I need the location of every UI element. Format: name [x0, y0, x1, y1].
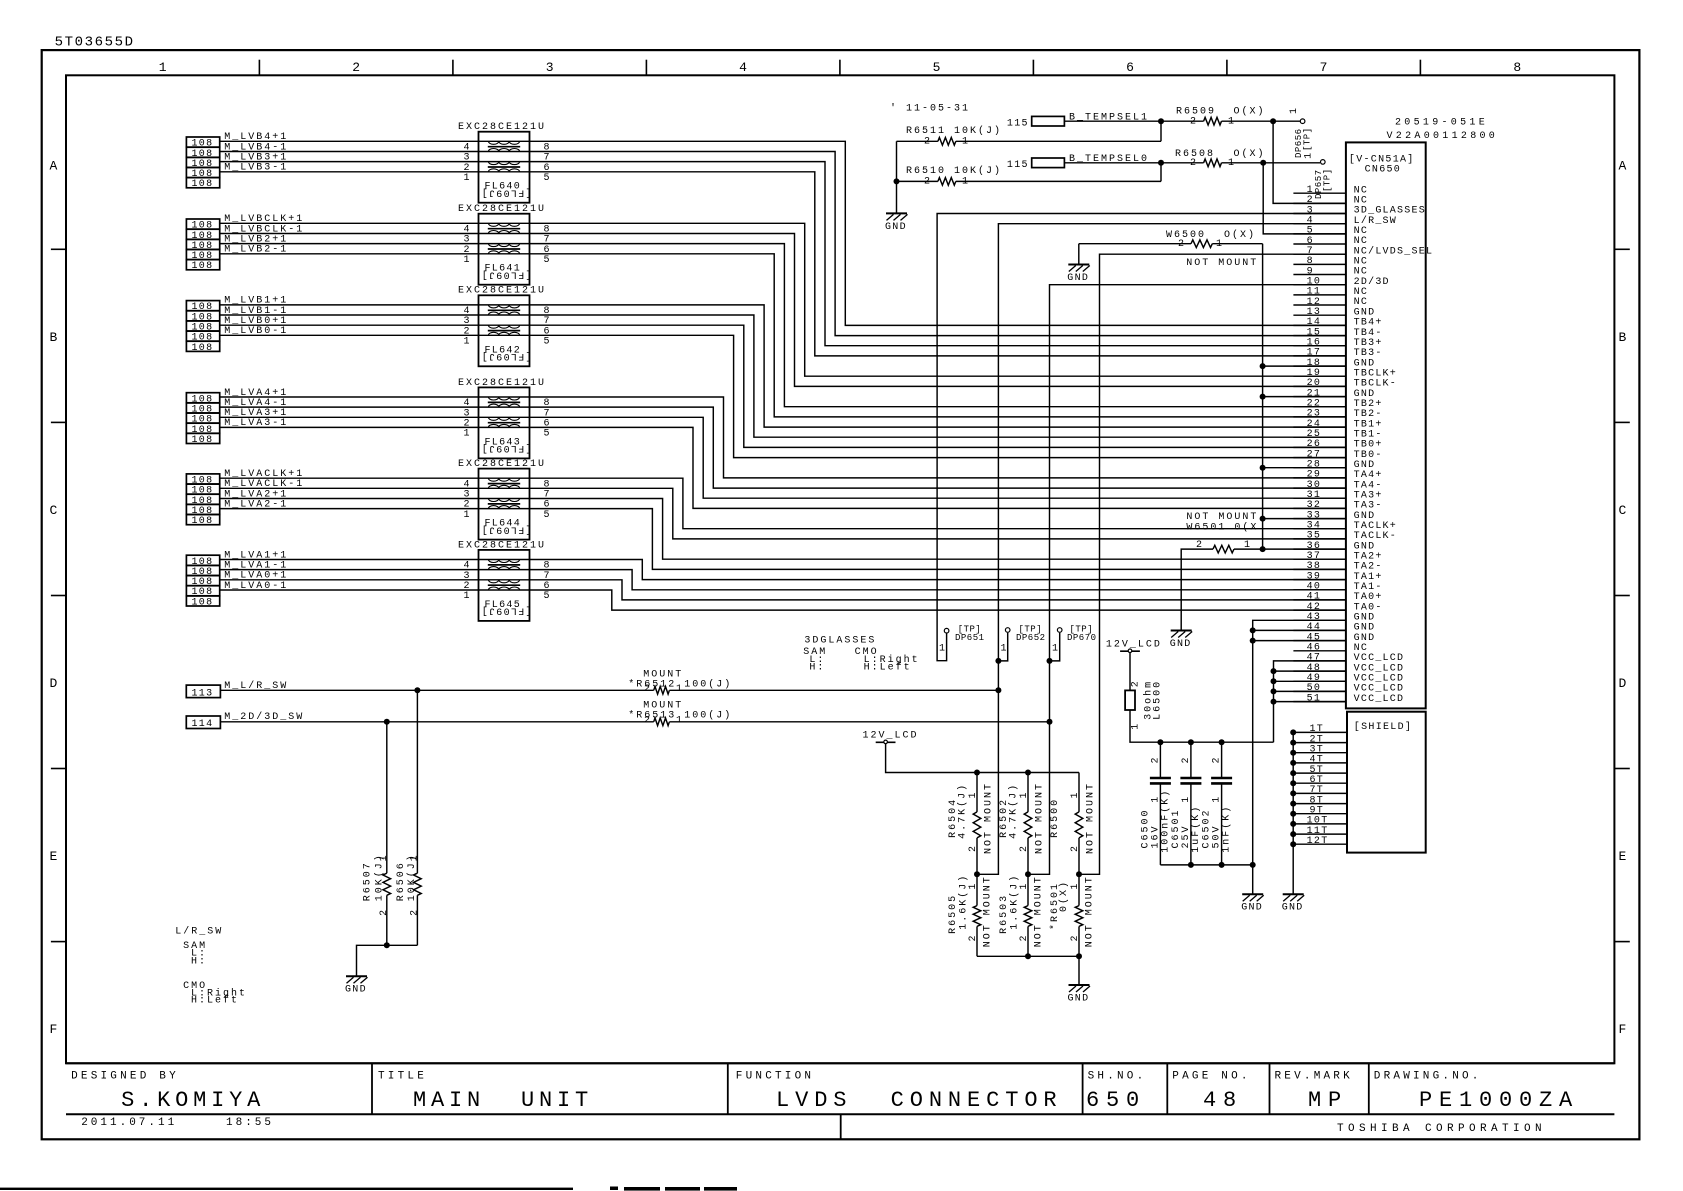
shield pin 2T	[1293, 742, 1347, 744]
svg-text:LVDS CONNECTOR: LVDS CONNECTOR	[776, 1088, 1063, 1113]
wire net 3D_GLASSES CN650 pin 3 to test point DP651	[937, 214, 1346, 661]
svg-text:5: 5	[544, 173, 551, 184]
CN650 pin 32 TA3-	[1293, 507, 1346, 509]
CN650 pin 50 VCC_LCD	[1293, 690, 1346, 692]
svg-text:DP651: DP651	[955, 633, 985, 643]
CN650 pin 12 NC	[1293, 304, 1346, 306]
svg-text:108: 108	[192, 261, 214, 272]
svg-text:5: 5	[544, 429, 551, 440]
svg-text:115: 115	[1007, 118, 1029, 129]
svg-text:5: 5	[544, 337, 551, 348]
svg-text:5T03655D: 5T03655D	[55, 34, 135, 50]
resistor R6505 1.6K(J) NOT MOUNT (pull-down)	[976, 874, 978, 905]
off-page reference box 114 M_2D/3D_SW	[186, 716, 220, 729]
svg-text:2D/3D: 2D/3D	[1354, 276, 1390, 288]
CN650 pin 42 TA0-	[1293, 609, 1346, 611]
svg-text:R6511 10K(J): R6511 10K(J)	[906, 125, 1002, 137]
off-page reference boxes 108 group FL640	[186, 137, 219, 147]
svg-text:1: 1	[1289, 107, 1300, 114]
svg-text:5: 5	[544, 510, 551, 521]
shield pin 1T	[1293, 731, 1347, 733]
svg-text:1nF(K): 1nF(K)	[1221, 805, 1233, 853]
svg-text:2011.07.11: 2011.07.11	[81, 1117, 177, 1129]
svg-text:1: 1	[1070, 791, 1081, 798]
svg-text:8: 8	[1513, 60, 1522, 75]
capacitor C6500 100nF(K) 16V	[1159, 742, 1161, 778]
ground GND (shield)	[1283, 893, 1304, 895]
svg-text:1: 1	[410, 854, 421, 861]
svg-text:VCC_LCD: VCC_LCD	[1354, 694, 1405, 705]
svg-text:1: 1	[1052, 644, 1059, 655]
svg-text:1: 1	[379, 854, 390, 861]
svg-text:1: 1	[464, 255, 471, 266]
wire W6500 pin2 to ground	[1078, 244, 1080, 264]
CN650 pin 46 NC	[1293, 650, 1346, 652]
svg-text:[FL09J]: [FL09J]	[480, 605, 531, 617]
shield pin 10T	[1293, 823, 1347, 825]
off-page reference boxes 108 group FL644	[186, 474, 219, 484]
svg-text:2: 2	[379, 909, 390, 916]
svg-text:GND: GND	[1170, 639, 1192, 650]
svg-text:4.7K(J): 4.7K(J)	[957, 783, 969, 839]
svg-text:4: 4	[739, 60, 748, 75]
svg-text:1: 1	[968, 791, 979, 798]
CN650 pin 47 VCC_LCD	[1293, 660, 1346, 662]
svg-text:E: E	[50, 849, 59, 864]
CN650 pin 51 VCC_LCD	[1293, 701, 1346, 703]
svg-text:R6500: R6500	[1050, 798, 1061, 838]
svg-text:R6510 10K(J): R6510 10K(J)	[906, 165, 1002, 177]
svg-text:1: 1	[464, 173, 471, 184]
svg-text:W6501 0(X: W6501 0(X	[1186, 521, 1258, 533]
svg-text:' 11-05-31: ' 11-05-31	[890, 102, 970, 114]
svg-text:SH.NO.: SH.NO.	[1088, 1071, 1147, 1083]
svg-text:DP652: DP652	[1016, 633, 1046, 643]
CN650 pin 24 TB1+	[1293, 426, 1346, 428]
svg-text:B: B	[50, 330, 59, 345]
svg-text:MAIN UNIT: MAIN UNIT	[413, 1088, 593, 1113]
wire CN650 pins 43-45 GND bus	[1253, 620, 1346, 894]
svg-text:6: 6	[1126, 60, 1135, 75]
wire 12V_LCD to pull-up resistors	[886, 744, 1079, 773]
CN650 pin 30 TA4-	[1293, 487, 1346, 489]
svg-text:20519-051E: 20519-051E	[1395, 118, 1488, 129]
svg-text:R6506: R6506	[396, 861, 407, 901]
svg-text:F: F	[50, 1022, 59, 1037]
svg-text:R6507: R6507	[363, 861, 374, 901]
CN650 pin 38 TA2-	[1293, 568, 1346, 570]
off-page reference boxes 108 group FL642	[186, 301, 219, 311]
CN650 pin 40 TA1-	[1293, 589, 1346, 591]
CN650 pin 11 NC	[1293, 294, 1346, 296]
wire net 2D/3D CN650 pin 10 vertical bus	[1028, 285, 1346, 875]
row ticks left margin	[51, 248, 67, 250]
svg-text:2: 2	[1019, 845, 1030, 852]
CN650 pin 19 TBCLK+	[1293, 375, 1346, 377]
wire R6506/R6507 bottoms to ground	[357, 945, 418, 976]
wire net NC/LVDS_SEL CN650 pin 7 vertical bus	[1079, 254, 1346, 874]
capacitor C6501 1uF(K) 25V	[1190, 742, 1192, 778]
svg-text:NOT MOUNT: NOT MOUNT	[1034, 875, 1045, 947]
title block grid	[66, 1062, 1614, 1064]
svg-text:1: 1	[1001, 644, 1008, 655]
svg-text:[TP]: [TP]	[1323, 168, 1333, 192]
svg-text:108: 108	[192, 516, 214, 527]
scan artifact bottom line	[0, 1188, 573, 1190]
off-page reference boxes 108 group FL645	[186, 555, 219, 565]
CN650 pin 39 TA1+	[1293, 579, 1346, 581]
test point DP652 [TP]	[998, 633, 1007, 661]
wire M_L/R_SW row	[220, 689, 653, 691]
shield pin 12T	[1293, 843, 1347, 845]
svg-text:A: A	[50, 158, 59, 173]
svg-text:51: 51	[1307, 693, 1322, 704]
svg-text:C: C	[50, 503, 59, 518]
svg-text:GND: GND	[1068, 994, 1090, 1005]
svg-text:O(X): O(X)	[1224, 229, 1256, 241]
svg-text:L/R_SW: L/R_SW	[175, 925, 223, 937]
CN650 pin 3 3D_GLASSES	[1293, 213, 1346, 215]
svg-text:NOT MOUNT: NOT MOUNT	[1086, 782, 1097, 854]
svg-text:108: 108	[192, 179, 214, 190]
svg-text:A: A	[1619, 158, 1628, 173]
svg-text:4.7K(J): 4.7K(J)	[1008, 783, 1020, 839]
svg-text:108: 108	[192, 343, 214, 354]
svg-text:1: 1	[1228, 116, 1235, 127]
svg-text:1: 1	[464, 429, 471, 440]
svg-text:GND: GND	[1241, 903, 1263, 914]
svg-text:3: 3	[546, 60, 555, 75]
svg-text:2: 2	[1190, 116, 1197, 127]
svg-text:DP670: DP670	[1067, 633, 1097, 643]
svg-text:48: 48	[1203, 1088, 1243, 1113]
off-page reference boxes 108 group FL641	[186, 219, 219, 229]
wire 12V_LCD bus to CN650 pins 47-51	[1130, 710, 1274, 742]
svg-text:100nF(K): 100nF(K)	[1160, 789, 1172, 853]
CN650 pin 33 GND	[1293, 518, 1346, 520]
CN650 pin 2 NC	[1293, 202, 1346, 204]
svg-text:O(X): O(X)	[1234, 106, 1266, 118]
svg-text:1: 1	[464, 510, 471, 521]
CN650 pin 48 VCC_LCD	[1293, 670, 1346, 672]
svg-text:2: 2	[644, 716, 651, 727]
svg-text:R6505: R6505	[948, 894, 959, 934]
svg-text:S.KOMIYA: S.KOMIYA	[121, 1088, 265, 1113]
CN650 pin 18 GND	[1293, 365, 1346, 367]
svg-text:GND: GND	[345, 985, 367, 996]
svg-text:1: 1	[1228, 158, 1235, 169]
svg-text:L/R_SW: L/R_SW	[1354, 215, 1397, 227]
svg-text:108: 108	[192, 435, 214, 446]
svg-text:C: C	[1619, 503, 1628, 518]
svg-text:0(X): 0(X)	[1058, 880, 1070, 912]
capacitor C6502 1nF(K) 50V	[1221, 742, 1223, 778]
svg-text:2: 2	[968, 934, 979, 941]
GND bus wire to connector ground pins 18 21 28 33 36	[1262, 244, 1264, 549]
wire R6511/R6510 common leg to ground	[896, 141, 898, 212]
svg-text:GND: GND	[1282, 903, 1304, 914]
svg-text:2: 2	[1019, 934, 1030, 941]
wire R6509 to CN650 pin 2	[1273, 121, 1346, 203]
CN650 pin 37 TA2+	[1293, 558, 1346, 560]
CN650 pin 20 TBCLK-	[1293, 385, 1346, 387]
CN650 pin 25 TB1-	[1293, 436, 1346, 438]
svg-text:D: D	[50, 676, 59, 691]
svg-text:1uF(K): 1uF(K)	[1190, 805, 1202, 853]
svg-text:1: 1	[939, 644, 946, 655]
svg-text:1: 1	[1019, 882, 1030, 889]
CN650 pin 26 TB0+	[1293, 446, 1346, 448]
svg-text:1.6K(J): 1.6K(J)	[958, 874, 970, 930]
svg-text:12V_LCD: 12V_LCD	[863, 731, 919, 742]
CN650 pin 17 TB3-	[1293, 355, 1346, 357]
svg-text:1: 1	[676, 684, 683, 695]
connector shield box [SHIELD]	[1347, 712, 1426, 853]
ground GND (R6510/R6511)	[886, 212, 907, 214]
CN650 pin 13 GND	[1293, 314, 1346, 316]
svg-text:D: D	[1619, 676, 1628, 691]
svg-text:1: 1	[159, 60, 168, 75]
shield pin 3T	[1293, 752, 1347, 754]
svg-text:5: 5	[544, 255, 551, 266]
wire M_2D/3D_SW row	[220, 721, 653, 723]
CN650 pin 28 GND	[1293, 467, 1346, 469]
CN650 pin 14 TB4+	[1293, 324, 1346, 326]
svg-text:GND: GND	[1067, 273, 1089, 284]
CN650 pin 36 GND	[1293, 548, 1346, 550]
svg-text:NOT MOUNT: NOT MOUNT	[983, 875, 994, 947]
CN650 pin 1 NC	[1293, 192, 1346, 194]
svg-text:5: 5	[544, 591, 551, 602]
CN650 pin 35 TACLK-	[1293, 538, 1346, 540]
row ticks right margin	[1614, 248, 1629, 250]
svg-text:1: 1	[1070, 882, 1081, 889]
ground GND (resistor bank)	[1069, 984, 1090, 986]
svg-text:R6503: R6503	[999, 894, 1010, 934]
svg-text:PAGE NO.: PAGE NO.	[1172, 1071, 1250, 1083]
svg-text:REV.MARK: REV.MARK	[1275, 1071, 1353, 1083]
svg-text:V22A00112800: V22A00112800	[1387, 131, 1499, 142]
svg-text:7: 7	[1320, 60, 1329, 75]
wire resistor bank bottoms to ground	[977, 955, 1079, 957]
svg-text:12T: 12T	[1307, 836, 1329, 847]
resistor R6504 4.7K(J) NOT MOUNT (pull-up)	[976, 773, 978, 812]
svg-text:108: 108	[192, 597, 214, 608]
CN650 pin 45 GND	[1293, 640, 1346, 642]
svg-text:GND: GND	[885, 222, 907, 233]
svg-text:O(X): O(X)	[1234, 148, 1266, 160]
ground GND (R6506/R6507)	[346, 975, 367, 977]
CN650 pin 34 TACLK+	[1293, 528, 1346, 530]
svg-text:[SHIELD]: [SHIELD]	[1354, 721, 1412, 733]
CN650 pin 29 TA4+	[1293, 477, 1346, 479]
svg-text:2: 2	[1070, 845, 1081, 852]
svg-text:DRAWING.NO.: DRAWING.NO.	[1374, 1071, 1482, 1083]
svg-text:NOT MOUNT: NOT MOUNT	[1186, 258, 1258, 269]
resistor R6507 10K(J)	[386, 722, 388, 873]
CN650 pin 9 NC	[1293, 274, 1346, 276]
inductor L6500 30ohm	[1129, 653, 1131, 691]
svg-text:2: 2	[1212, 756, 1223, 763]
shield pin 5T	[1293, 772, 1347, 774]
CN650 pin 5 NC	[1293, 233, 1346, 235]
svg-text:L6500: L6500	[1153, 680, 1164, 720]
svg-text:DESIGNED BY: DESIGNED BY	[71, 1071, 179, 1083]
CN650 pin 16 TB3+	[1293, 345, 1346, 347]
svg-text:650: 650	[1086, 1088, 1146, 1113]
test point DP670 [TP]	[1050, 633, 1060, 661]
shield pin 11T	[1293, 833, 1347, 835]
column ticks top margin	[258, 60, 260, 76]
svg-text:NOT MOUNT: NOT MOUNT	[1085, 875, 1096, 947]
svg-text:2: 2	[1131, 680, 1142, 687]
resistor R6506 10K(J)	[416, 690, 418, 873]
svg-text:H:: H:	[191, 957, 207, 968]
svg-text:2: 2	[1070, 934, 1081, 941]
svg-text:2: 2	[644, 684, 651, 695]
CN650 pin 23 TB2-	[1293, 416, 1346, 418]
CN650 pin 21 GND	[1293, 396, 1346, 398]
shield pin 4T	[1293, 762, 1347, 764]
resistor *R6501 0(X) NOT MOUNT (pull-down)	[1078, 874, 1080, 905]
svg-text:1.6K(J): 1.6K(J)	[1009, 874, 1021, 930]
svg-text:H:Left: H:Left	[864, 662, 912, 674]
test point DP657 [TP]	[1321, 160, 1326, 165]
wire capacitor bottoms ground bus	[1160, 864, 1252, 866]
svg-text:2: 2	[1190, 158, 1197, 169]
svg-text:NC/LVDS_SEL: NC/LVDS_SEL	[1354, 245, 1434, 257]
svg-text:18:55: 18:55	[226, 1117, 274, 1129]
svg-text:1: 1	[1181, 795, 1192, 802]
svg-text:[FL09J]: [FL09J]	[480, 350, 531, 362]
svg-text:CN650: CN650	[1365, 165, 1402, 176]
CN650 pin 43 GND	[1293, 619, 1346, 621]
svg-text:115: 115	[1007, 160, 1029, 171]
CN650 pin 6 NC	[1293, 243, 1346, 245]
off-page reference box 113 M_L/R_SW	[186, 685, 220, 698]
svg-text:114: 114	[192, 719, 214, 730]
svg-text:1: 1	[676, 716, 683, 727]
svg-text:2: 2	[1181, 756, 1192, 763]
wire net L/R_SW CN650 pin 4 vertical bus	[977, 224, 1346, 875]
svg-text:E: E	[1619, 849, 1628, 864]
shield pin 8T	[1293, 803, 1347, 805]
resistor R6502 4.7K(J) NOT MOUNT (pull-up)	[1027, 773, 1029, 812]
CN650 pin 41 TA0+	[1293, 599, 1346, 601]
svg-text:FUNCTION: FUNCTION	[736, 1071, 814, 1083]
svg-text:NOT MOUNT: NOT MOUNT	[984, 782, 995, 854]
CN650 pin 27 TB0-	[1293, 457, 1346, 459]
svg-text:1: 1	[1131, 722, 1142, 729]
svg-text:[FL09J]: [FL09J]	[480, 523, 531, 535]
svg-text:1: 1	[1212, 795, 1223, 802]
resistor R6500 NOT MOUNT (pull-up)	[1078, 773, 1080, 812]
svg-text:H:: H:	[809, 662, 825, 673]
svg-text:3DGLASSES: 3DGLASSES	[804, 636, 876, 647]
svg-text:1: 1	[464, 337, 471, 348]
CN650 pin 10 2D/3D	[1293, 284, 1346, 286]
shield pin 6T	[1293, 782, 1347, 784]
inner border frame	[66, 75, 1614, 1063]
CN650 pin 4 L/R_SW	[1293, 223, 1346, 225]
shield pin 7T	[1293, 792, 1347, 794]
svg-text:1: 1	[1303, 152, 1314, 159]
svg-text:MP: MP	[1308, 1088, 1348, 1113]
svg-text:TOSHIBA CORPORATION: TOSHIBA CORPORATION	[1337, 1123, 1546, 1135]
svg-text:NOT MOUNT: NOT MOUNT	[1035, 782, 1046, 854]
svg-text:PE1000ZA: PE1000ZA	[1419, 1088, 1579, 1113]
wire R6508 to CN650 pin 5	[1263, 163, 1346, 234]
svg-text:1: 1	[968, 882, 979, 889]
ground GND (capacitors / pins 43-45)	[1242, 893, 1263, 895]
test point DP651 [TP]	[944, 628, 949, 633]
svg-text:12V_LCD: 12V_LCD	[1106, 639, 1162, 650]
CN650 pin 44 GND	[1293, 629, 1346, 631]
svg-text:F: F	[1619, 1022, 1628, 1037]
svg-text:2: 2	[410, 909, 421, 916]
svg-text:TITLE: TITLE	[378, 1071, 427, 1083]
ground GND (W6501)	[1171, 630, 1192, 632]
resistor R6503 1.6K(J) NOT MOUNT (pull-down)	[1027, 874, 1029, 905]
svg-text:2: 2	[968, 845, 979, 852]
svg-text:[FL09J]: [FL09J]	[480, 442, 531, 454]
CN650 pin 7 NC/LVDS_SEL	[1293, 253, 1346, 255]
svg-text:[FL09J]: [FL09J]	[480, 269, 531, 281]
svg-text:B: B	[1619, 330, 1628, 345]
svg-text:2: 2	[1150, 756, 1161, 763]
svg-text:113: 113	[192, 688, 214, 699]
CN650 pin 49 VCC_LCD	[1293, 680, 1346, 682]
wire W6501 pin2 to ground	[1181, 549, 1213, 630]
test point DP656 [TP]	[1300, 119, 1305, 124]
CN650 pin 22 TB2+	[1293, 406, 1346, 408]
CN650 pin 15 TB4-	[1293, 335, 1346, 337]
svg-text:NOT MOUNT: NOT MOUNT	[1186, 512, 1258, 523]
CN650 pin 31 TA3+	[1293, 497, 1346, 499]
shield pin 9T	[1293, 813, 1347, 815]
svg-text:2: 2	[352, 60, 361, 75]
wire shield pins 1T-12T ground bus	[1292, 732, 1294, 894]
svg-text:1: 1	[1019, 791, 1030, 798]
svg-text:1: 1	[464, 591, 471, 602]
off-page reference boxes 108 group FL643	[186, 393, 219, 403]
svg-text:5: 5	[933, 60, 942, 75]
svg-text:H:Left: H:Left	[191, 995, 239, 1007]
ground GND (W6500)	[1068, 264, 1089, 266]
svg-text:[TP]: [TP]	[1303, 127, 1313, 151]
svg-text:[FL09J]: [FL09J]	[480, 187, 531, 199]
CN650 pin 8 NC	[1293, 263, 1346, 265]
